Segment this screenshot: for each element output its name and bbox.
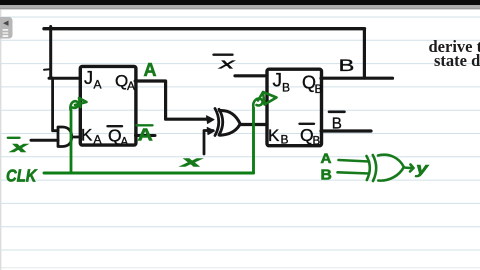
top toolbar: [0, 0, 480, 5]
label QB: [302, 73, 323, 97]
label x-bar (black, at JB input): [214, 55, 237, 72]
wire x-bar to JB: [235, 74, 267, 77]
wire B input: [338, 172, 370, 173]
label JB: [273, 71, 291, 95]
wire QB-bar out: [321, 129, 371, 132]
annotation text: derive the state diagram: [429, 37, 480, 70]
svg-text:K: K: [81, 126, 93, 145]
svg-text:B: B: [339, 56, 355, 75]
svg-text:B: B: [313, 136, 321, 148]
flip-flop U2 box (B): [267, 69, 322, 146]
svg-text:A: A: [127, 79, 135, 93]
XOR gate G2 back arcs: [215, 109, 219, 136]
wire y output with arrow: [404, 165, 414, 172]
wire feedback left vertical: [49, 27, 52, 79]
wire x-bar input to AND: [31, 139, 58, 142]
svg-text:A: A: [121, 137, 129, 149]
svg-text:J: J: [273, 71, 283, 92]
clock arrow FFB: [253, 92, 276, 108]
wire branch down to AND gate: [53, 78, 58, 131]
svg-text:B: B: [315, 82, 323, 96]
wire QB out: [321, 77, 393, 80]
wire A input: [339, 160, 370, 162]
label x-bar (green, left input): [8, 138, 29, 155]
svg-text:K: K: [268, 126, 280, 145]
AND gate G1: [58, 127, 72, 147]
svg-text:CLK: CLK: [6, 166, 38, 185]
wire AND out to KA: [72, 136, 80, 139]
label QA: [115, 72, 135, 94]
clock arrow FFA: [70, 98, 86, 110]
tick mark at node: [44, 68, 50, 71]
wire CLK branch to FFA: [70, 110, 73, 173]
svg-text:A: A: [94, 133, 102, 147]
output XOR G3 (green): [338, 155, 414, 181]
wire x input to XOR lower: [204, 131, 213, 155]
wire JA input: [49, 77, 80, 80]
label KA: [81, 126, 102, 147]
label QA-bar: [108, 126, 129, 149]
XOR G3 back arcs: [367, 156, 370, 180]
svg-text:y: y: [415, 160, 430, 178]
label A-bar (green, QA-bar output): [137, 125, 153, 145]
svg-text:A: A: [144, 60, 157, 80]
wire CLK branch to FFB: [252, 108, 255, 173]
label JA: [84, 68, 102, 92]
svg-text:B: B: [282, 81, 290, 95]
label QB-bar: [300, 124, 321, 148]
svg-text:B: B: [281, 133, 289, 147]
wire XOR out to KB: [241, 123, 267, 126]
svg-text:A: A: [138, 125, 153, 145]
svg-text:x: x: [10, 139, 29, 155]
label KB: [268, 126, 289, 147]
arrowhead into XOR top input: [207, 116, 215, 124]
sidebar tab widget: [0, 17, 13, 39]
arrowhead into XOR lower input: [207, 127, 214, 134]
flip-flop U1 box (A): [80, 66, 136, 145]
label B-bar (QB-bar output): [329, 112, 345, 133]
wire CLK bus: [44, 172, 254, 175]
svg-text:state di: state di: [434, 51, 480, 70]
svg-text:x: x: [179, 153, 202, 170]
wire feedback right vertical: [363, 29, 366, 78]
wire top feedback (B to JA): [44, 27, 365, 30]
XOR G3 body: [378, 155, 404, 181]
XOR gate G2 body: [220, 110, 241, 135]
svg-text:A: A: [94, 78, 102, 92]
svg-text:x: x: [218, 56, 236, 72]
wire QA-bar stub: [136, 134, 156, 137]
svg-text:B: B: [321, 167, 332, 184]
svg-text:B: B: [332, 115, 342, 132]
svg-text:J: J: [84, 68, 93, 88]
wire QA to XOR top input: [135, 81, 206, 119]
svg-text:A: A: [321, 152, 332, 167]
